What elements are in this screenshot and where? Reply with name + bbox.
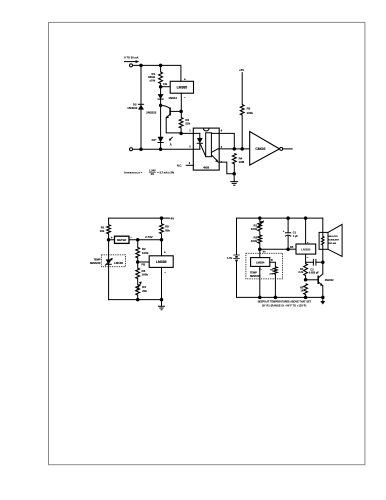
resistor R1 330 ohm	[159, 72, 163, 84]
svg-text:10k: 10k	[100, 229, 105, 233]
svg-text:BY R1 (RANGE IS −50°F TO +120°: BY R1 (RANGE IS −50°F TO +120°F)	[262, 304, 306, 307]
wire LM385 minus to base node	[180, 93, 182, 117]
svg-text:1N914: 1N914	[168, 96, 177, 100]
svg-text:ITHRESHOLD =: ITHRESHOLD =	[124, 172, 143, 175]
svg-text:+: +	[164, 251, 166, 255]
svg-text:6V: 6V	[171, 217, 175, 221]
resistor R2 100k	[136, 247, 140, 258]
wire R2	[137, 240, 139, 268]
ground G1	[233, 174, 235, 182]
wire +5V column	[241, 73, 243, 105]
wire top rail	[109, 217, 170, 219]
svg-text:LM385: LM385	[156, 260, 167, 264]
svg-text:1.5V: 1.5V	[227, 256, 233, 260]
wire pin5 collector out	[218, 148, 250, 150]
svg-text:+: +	[283, 229, 285, 233]
svg-text:R3: R3	[247, 106, 251, 110]
wire pin3 stub	[186, 164, 193, 166]
svg-text:−: −	[130, 236, 132, 240]
input terminal bottom	[130, 148, 133, 151]
wire LED D1 column	[160, 105, 162, 137]
node R5 bottom	[160, 238, 164, 242]
node FB c3	[286, 247, 290, 251]
wire U6 minus	[305, 254, 307, 264]
node R1 top	[159, 64, 163, 68]
wire pin6 base out	[211, 133, 234, 149]
svg-text:4N28: 4N28	[203, 167, 210, 170]
temp sensor dashed box	[101, 255, 125, 267]
trimmer R1 100k c3	[259, 218, 261, 221]
svg-text:±1%: ±1%	[149, 79, 155, 83]
node ground junction	[232, 172, 236, 176]
svg-text:−: −	[307, 256, 309, 260]
capacitor C1 1uF	[287, 218, 289, 233]
wire emitter down	[322, 286, 324, 298]
node R1 top c3	[258, 216, 262, 220]
wire divider to FB	[260, 248, 288, 250]
svg-text:SONALERT: SONALERT	[328, 239, 340, 242]
node D1 bottom	[159, 147, 163, 151]
opto phototransistor	[211, 149, 218, 153]
resistor R1 10k	[107, 225, 111, 234]
svg-text:LM135: LM135	[114, 261, 123, 265]
node top D2	[139, 64, 143, 68]
resistor R3 230 c3	[274, 267, 278, 274]
svg-text:= 3.7 mA ± 2%: = 3.7 mA ± 2%	[157, 172, 174, 175]
svg-text:2.73V: 2.73V	[145, 235, 153, 239]
wire base c3	[306, 279, 318, 281]
ground G3	[322, 297, 324, 301]
wire R4 bottom	[137, 295, 139, 300]
wire sensor column	[108, 240, 110, 300]
svg-text:100k: 100k	[142, 251, 149, 255]
node rail ground c3	[321, 296, 325, 300]
wire bottom rail c3	[237, 296, 323, 298]
reference U6 LM385	[296, 244, 316, 254]
node pin1	[179, 132, 183, 136]
wire R3 to node	[241, 115, 243, 149]
wire pin1	[181, 132, 200, 134]
svg-text:FB: FB	[290, 246, 294, 249]
wire R3 to R4	[137, 279, 139, 285]
svg-text:100k: 100k	[251, 239, 258, 243]
wire output	[283, 148, 293, 150]
wire emitter loop	[166, 118, 181, 133]
node R2 top	[136, 238, 140, 242]
wire R1 bottom to FB node	[160, 84, 162, 95]
opto LED	[199, 133, 201, 138]
node rail sensor2	[274, 296, 278, 300]
resistor R5 1k c3	[304, 284, 308, 295]
wire pin2 segment	[193, 148, 200, 150]
diode D3 1N914	[158, 94, 163, 98]
svg-text:50k: 50k	[165, 229, 170, 233]
node rail R5	[304, 296, 308, 300]
ground G2	[161, 300, 163, 306]
svg-text:−: −	[164, 270, 166, 274]
node divider c3	[258, 247, 262, 251]
wire top rail	[133, 65, 181, 81]
svg-text:100k: 100k	[247, 111, 254, 115]
svg-text:METER: METER	[117, 238, 126, 242]
wire FB to LM385	[138, 261, 150, 263]
capacitor C2 0.033uF	[313, 259, 316, 266]
current source U5 LM334	[251, 258, 270, 267]
svg-text:FB: FB	[163, 82, 167, 86]
svg-text:1 µF: 1 µF	[293, 235, 299, 238]
svg-text:1N4002: 1N4002	[127, 106, 138, 110]
svg-text:+: +	[307, 241, 309, 245]
wire set resistor	[270, 262, 276, 267]
svg-text:20k: 20k	[142, 289, 147, 293]
wire U6 plus	[305, 218, 307, 244]
wire top rail c3	[237, 217, 323, 219]
svg-text:+5V: +5V	[239, 68, 244, 72]
wire R1 to meter node	[108, 234, 110, 240]
svg-text:+: +	[184, 77, 186, 81]
svg-text:SENSOR: SENSOR	[250, 275, 261, 278]
sensor diode LM135	[106, 260, 111, 264]
temp sensor dashed box c3	[246, 253, 283, 279]
node bottom D2	[139, 147, 143, 151]
resistor R4 10M	[232, 153, 236, 164]
node FB	[159, 85, 163, 89]
svg-text:10M: 10M	[239, 160, 245, 164]
svg-text:100k: 100k	[142, 273, 149, 277]
wire speaker column	[322, 218, 324, 274]
svg-text:22k: 22k	[185, 122, 190, 126]
node FB c2	[136, 260, 140, 264]
svg-text:LM385: LM385	[177, 86, 188, 90]
wire R5	[161, 218, 163, 240]
transistor Q1 2N2222	[161, 105, 170, 108]
svg-text:BEEPS AT TEMPERATURES ABOVE TH: BEEPS AT TEMPERATURES ABOVE THAT SET	[258, 300, 312, 303]
svg-text:CMOS: CMOS	[255, 147, 266, 151]
buffer U3 CMOS	[250, 132, 280, 166]
wire into sensor	[259, 249, 261, 257]
wire LM385 minus	[161, 267, 163, 299]
opto base plate	[206, 133, 212, 157]
svg-text:LM385: LM385	[301, 247, 311, 251]
svg-text:FB: FB	[141, 263, 145, 267]
current direction arrow	[125, 61, 137, 63]
wire R4 bottom	[233, 164, 235, 174]
node CMOS input	[240, 147, 244, 151]
wire FB to U6	[288, 248, 296, 250]
wire LM334 bottom	[259, 266, 261, 297]
transistor Q2 2N2222	[317, 276, 319, 284]
wire C2 row	[306, 261, 323, 263]
reference U4 LM385	[149, 256, 173, 268]
wire pin4 emitter to ground	[218, 162, 234, 174]
resistor R3 100k	[240, 105, 244, 116]
wire R2 bottom	[180, 128, 182, 133]
svg-text:R: R	[271, 259, 273, 262]
svg-text:TEMP: TEMP	[93, 258, 100, 261]
wire R1 column	[108, 218, 110, 225]
node meter plus	[107, 238, 111, 242]
diode D2 1N4002	[138, 105, 143, 109]
svg-text:2N2222: 2N2222	[146, 111, 157, 115]
battery B1 1.5V	[236, 218, 238, 297]
node rail ground	[160, 298, 164, 302]
node C1 top	[286, 216, 290, 220]
svg-text:−: −	[184, 96, 186, 100]
svg-text:0.033 µF: 0.033 µF	[309, 271, 319, 274]
svg-text:MALLORY: MALLORY	[328, 235, 338, 238]
node R5 top	[160, 216, 164, 220]
opto led-base link	[201, 145, 206, 157]
svg-text:N.C.: N.C.	[177, 164, 182, 167]
resistor R5 50k	[160, 224, 164, 234]
node R4 top	[233, 147, 237, 151]
node speaker bottom	[321, 260, 325, 264]
node collector tap	[159, 104, 163, 108]
meter M1	[115, 236, 130, 243]
input terminal top	[130, 64, 133, 67]
node base c3	[304, 278, 308, 282]
trimmer R4 20k	[136, 285, 140, 296]
wire base to node	[171, 110, 181, 112]
svg-text:TEMP: TEMP	[250, 271, 257, 274]
node base	[179, 110, 183, 114]
svg-text:2.2k: 2.2k	[298, 271, 303, 274]
wire R1 column top	[160, 65, 162, 72]
svg-text:100k: 100k	[251, 227, 258, 231]
wire D2 branch	[140, 65, 142, 149]
wire bottom rail	[133, 148, 200, 150]
wire bottom rail c2	[109, 299, 162, 301]
optocoupler U2 4N28 body	[193, 128, 219, 170]
resistor R2 100k c3	[259, 232, 261, 235]
svg-text:SNP-428: SNP-428	[328, 242, 337, 245]
svg-text:2N2222: 2N2222	[325, 279, 334, 282]
wire FB to LM385	[161, 86, 171, 88]
node rail R4	[136, 298, 140, 302]
wire LM385 plus	[161, 240, 163, 256]
lambda emission arrow	[170, 137, 172, 139]
node U6 plus rail	[304, 216, 308, 220]
svg-text:SENSOR: SENSOR	[90, 262, 101, 265]
wire 1N914 to collector node	[160, 99, 162, 105]
resistor R3 100k	[136, 268, 140, 279]
svg-text:LM334: LM334	[256, 260, 265, 264]
resistor R4 2.2k c3	[304, 264, 308, 276]
op-amp U1 LM385	[170, 81, 193, 93]
wire meter row	[109, 239, 162, 241]
node rail sensor1	[258, 296, 262, 300]
resistor R2 22k	[179, 118, 183, 129]
svg-text:8 TO 30 mA: 8 TO 30 mA	[124, 56, 138, 60]
LED D1*	[158, 137, 163, 142]
speaker SP1 sonalert	[319, 232, 328, 249]
